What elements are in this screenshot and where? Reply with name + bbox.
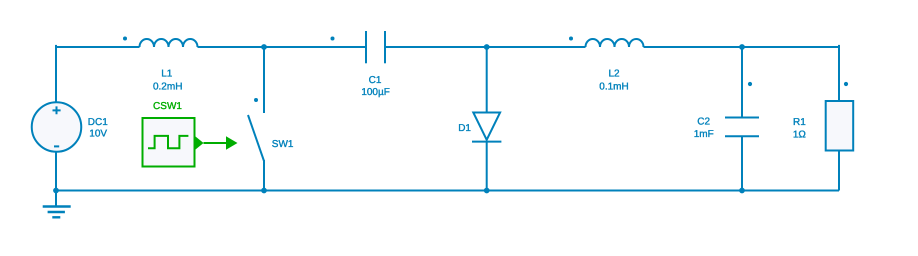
svg-text:D1: D1 bbox=[458, 123, 471, 134]
svg-text:0.2mH: 0.2mH bbox=[153, 81, 182, 92]
svg-text:0.1mH: 0.1mH bbox=[599, 81, 628, 92]
svg-text:R1: R1 bbox=[793, 117, 806, 128]
svg-text:100µF: 100µF bbox=[361, 87, 390, 98]
svg-text:1Ω: 1Ω bbox=[793, 129, 807, 140]
svg-text:L2: L2 bbox=[608, 69, 620, 80]
svg-text:SW1: SW1 bbox=[272, 139, 294, 150]
svg-text:1mF: 1mF bbox=[694, 129, 714, 140]
svg-text:DC1: DC1 bbox=[88, 117, 108, 128]
svg-text:C2: C2 bbox=[697, 116, 710, 127]
svg-text:L1: L1 bbox=[161, 68, 173, 79]
svg-text:CSW1: CSW1 bbox=[153, 101, 182, 112]
svg-text:10V: 10V bbox=[89, 128, 107, 139]
svg-text:C1: C1 bbox=[369, 75, 382, 86]
